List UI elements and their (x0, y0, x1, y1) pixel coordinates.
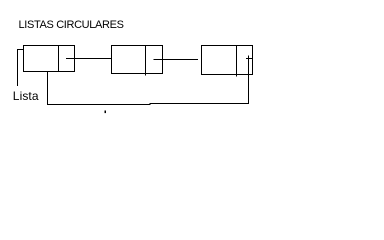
wire N1 bottom down (47, 72, 49, 106)
node N3 box (202, 46, 253, 75)
stray dot (105, 111, 107, 114)
node N1 box (24, 46, 75, 72)
node N2 divider (145, 46, 147, 76)
wire bottom return (48, 104, 249, 105)
node N3 divider (236, 46, 238, 77)
node N2 box (112, 46, 163, 74)
wire N3 pointer tick (246, 58, 253, 60)
wire N1 to N2 (66, 58, 112, 60)
wire N3 down (248, 56, 250, 105)
svg-text:Lista: Lista (13, 89, 39, 103)
pointer Lista bracket wire (18, 50, 25, 87)
node N1 divider (58, 46, 60, 72)
wire N2 to N3 (154, 59, 199, 61)
svg-text:LISTAS CIRCULARES: LISTAS CIRCULARES (19, 19, 124, 31)
